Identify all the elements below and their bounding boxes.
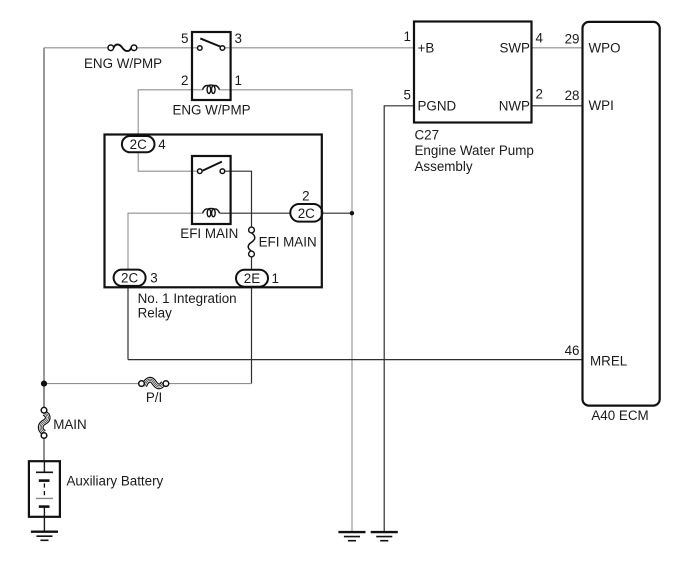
fusible link MAIN [41,407,48,438]
svg-text:SWP: SWP [499,41,530,56]
svg-text:2E: 2E [244,271,260,286]
wire SWP to WPO [532,47,583,49]
No. 1 Integration Relay box [105,135,322,288]
relay ENG W/PMP box [192,32,231,100]
svg-text:PGND: PGND [418,99,457,114]
wire junction to MAIN fusible link [43,384,45,408]
wire P/I fusible link to vertical [169,383,252,385]
svg-text:Assembly: Assembly [415,159,473,174]
svg-text:2C: 2C [298,206,315,221]
svg-text:Engine Water Pump: Engine Water Pump [415,143,534,158]
svg-text:2C: 2C [130,137,147,152]
C27 Engine Water Pump Assembly box [414,22,532,123]
wire relay pin 1 down to junction [220,90,353,213]
relay EFI MAIN coil [203,208,220,216]
svg-text:NWP: NWP [499,99,530,114]
wire fuse to relay pin 5 [137,47,198,49]
wire relay pin 2 to connector 2C-4 [138,90,202,136]
svg-text:3: 3 [235,31,242,46]
ECM A40 box [583,22,660,406]
svg-text:WPI: WPI [589,98,614,113]
relay ENG W/PMP coil [203,85,220,93]
wire battery to ground [43,507,45,532]
svg-text:WPO: WPO [589,41,621,56]
junction dot battery node [41,381,47,387]
connector 2C-2 [290,204,322,222]
fusible link P/I [139,380,169,387]
wire connector 2E-1 down to P/I level [251,287,253,383]
wire PGND to ground [384,106,414,532]
svg-text:A40 ECM: A40 ECM [591,408,648,423]
ground battery [31,532,58,541]
svg-text:P/I: P/I [146,390,162,405]
wire connector 2C-3 down [127,286,129,360]
fuse ENG W/PMP [108,45,137,52]
svg-text:2: 2 [302,189,309,204]
connector 2C-3 [114,270,146,286]
svg-text:No. 1 Integration: No. 1 Integration [138,291,237,306]
svg-text:MAIN: MAIN [53,417,86,432]
svg-text:46: 46 [565,343,580,358]
wire junction to ground [351,213,353,532]
svg-text:28: 28 [565,88,580,103]
svg-text:ENG W/PMP: ENG W/PMP [84,56,162,71]
svg-text:+B: +B [418,41,435,56]
battery Auxiliary Battery [29,461,60,517]
svg-text:4: 4 [536,31,544,46]
svg-text:2: 2 [536,87,543,102]
relay ENG W/PMP switch [198,38,225,50]
svg-text:4: 4 [158,137,166,152]
svg-text:29: 29 [565,32,580,47]
connector 2E-1 [236,270,268,287]
wire MAIN fusible link to battery [43,438,45,461]
wire battery trunk vertical [43,48,45,384]
svg-text:MREL: MREL [590,354,627,369]
wire top feed to fuse [44,47,108,49]
svg-text:5: 5 [404,88,411,103]
wire MREL to ECM pin 46 [128,359,583,361]
svg-text:EFI MAIN: EFI MAIN [259,234,317,249]
svg-text:5: 5 [181,31,188,46]
junction dot coil node [350,211,354,215]
wire connector 2C-4 to EFI MAIN switch [138,153,197,172]
svg-text:1: 1 [235,73,242,88]
svg-text:3: 3 [150,271,157,286]
relay EFI MAIN switch [198,162,225,174]
wire EFI MAIN coil right to connector 2C-2 [220,212,291,214]
wire connector 2C-2 to junction dot [322,212,352,214]
svg-text:2: 2 [181,73,188,88]
ground left (pin1 node) [338,532,365,541]
svg-text:Relay: Relay [138,305,173,320]
svg-text:1: 1 [272,271,279,286]
wire EFI MAIN coil left to connector 2C-3 [128,213,203,269]
wire relay pin 3 to C27 +B [225,47,414,49]
relay EFI MAIN box [192,156,231,224]
svg-text:1: 1 [404,29,411,44]
wire NWP to WPI [532,105,583,107]
wire EFI MAIN switch to fuse [225,171,252,227]
svg-text:Auxiliary Battery: Auxiliary Battery [67,474,164,489]
svg-text:ENG W/PMP: ENG W/PMP [172,103,250,118]
wire junction to P/I fusible link [44,383,139,385]
svg-text:C27: C27 [415,127,440,142]
fuse EFI MAIN [248,227,255,257]
svg-text:EFI MAIN: EFI MAIN [180,226,238,241]
svg-text:2C: 2C [121,271,138,286]
wire fuse EFI MAIN to connector 2E-1 [251,257,253,270]
connector 2C-4 [122,136,155,152]
ground right (PGND) [371,532,398,541]
